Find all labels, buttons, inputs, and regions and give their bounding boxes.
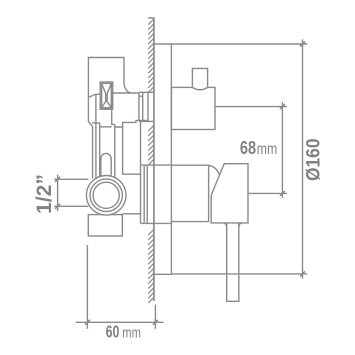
wall hatching: [148, 19, 154, 304]
dome slot: [101, 153, 111, 180]
wall: [153, 18, 155, 301]
knob collar arc: [209, 165, 220, 175]
svg-text:60: 60: [106, 322, 120, 342]
body left chamfer: [88, 121, 92, 126]
dim 60 right extension: [154, 305, 156, 329]
boss middle ring: [90, 179, 122, 211]
escutcheon plate edge: [170, 44, 172, 275]
rod shoulder fillets: [224, 223, 242, 227]
top function unit box: [171, 87, 215, 129]
dim 68 top extension: [215, 106, 287, 108]
cylinder verticals: [96, 94, 123, 177]
spool inner rect: [102, 83, 112, 107]
connection boss outer circle: [86, 176, 126, 216]
dim 68 bottom extension: [248, 192, 287, 194]
shelf to spigot: [123, 173, 141, 175]
svg-text:mm: mm: [257, 141, 278, 158]
dim Ø160 bottom extension: [171, 273, 307, 275]
dim 60 horizontal line: [76, 321, 164, 323]
spool left step curve: [89, 94, 101, 97]
plate bottom edge to wall: [154, 273, 172, 275]
top box fillet to body: [124, 84, 131, 94]
body top edge: [113, 92, 139, 94]
dimension tick marks: [55, 42, 305, 325]
dim 1/2 vertical line: [57, 175, 59, 211]
stem step right: [112, 109, 148, 127]
dim 68 vertical line: [281, 102, 283, 198]
diverter knob base: [171, 165, 208, 221]
shelf lines under body: [92, 123, 112, 127]
svg-text:1/2”: 1/2”: [33, 174, 56, 214]
spool hourglass: [102, 83, 112, 107]
upper flange through wall: [139, 92, 154, 121]
svg-text:Ø160: Ø160: [303, 138, 325, 181]
body left inner edge: [92, 127, 94, 179]
plate top edge to wall: [154, 43, 172, 45]
valve top box: [88, 58, 124, 122]
lower spigot through wall: [122, 165, 171, 223]
svg-text:68: 68: [240, 137, 256, 158]
body right edge: [138, 93, 140, 120]
push button: [192, 68, 207, 89]
dim Ø160 top extension: [171, 43, 307, 45]
lever rod: [227, 223, 239, 301]
pipe stub line: [140, 121, 142, 165]
dim Ø160 vertical line: [302, 39, 304, 278]
cartridge spool outer: [100, 82, 113, 109]
dim 60 left extension: [86, 245, 88, 329]
dim 1/2 lower extension: [54, 205, 88, 207]
dim 1/2 upper extension: [54, 178, 88, 180]
lower outlet box: [88, 215, 122, 236]
boss inner circle: [93, 182, 119, 208]
svg-text:mm: mm: [122, 325, 141, 342]
diverter knob: [211, 164, 248, 223]
wall top cap: [148, 17, 155, 19]
